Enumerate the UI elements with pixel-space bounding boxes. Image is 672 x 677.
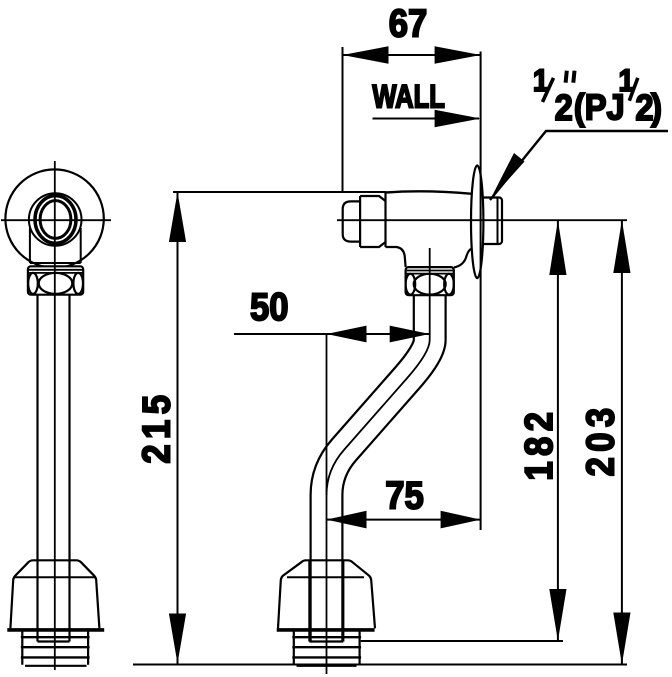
svg-text:2: 2 bbox=[555, 89, 573, 129]
svg-text:50: 50 bbox=[250, 285, 289, 328]
svg-text:(PJ: (PJ bbox=[574, 88, 625, 128]
svg-text:203: 203 bbox=[579, 402, 622, 476]
svg-text:WALL: WALL bbox=[372, 80, 444, 115]
svg-text:75: 75 bbox=[385, 474, 424, 517]
svg-text:): ) bbox=[651, 88, 662, 128]
svg-text:182: 182 bbox=[517, 407, 560, 481]
svg-text:67: 67 bbox=[389, 2, 428, 45]
svg-text:215: 215 bbox=[135, 390, 178, 464]
